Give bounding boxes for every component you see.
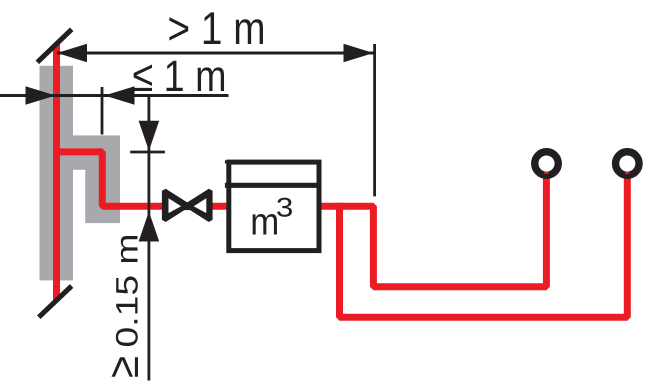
dimension line > 1 m — [57, 52, 374, 55]
valve (bowtie) black body — [164, 191, 210, 220]
valve white inner left triangle — [169, 198, 182, 213]
svg-text:≤ 1 m: ≤ 1 m — [133, 52, 227, 101]
vertical dimension line (&#8805; 0.15 m) — [147, 96, 150, 381]
svg-text:≥: ≥ — [99, 356, 148, 378]
wall break hatch top — [37, 29, 71, 62]
dimension line &#8804; 1 m — [0, 94, 229, 97]
meter box lid divider — [225, 183, 322, 188]
svg-text:> 1 m: > 1 m — [168, 2, 266, 54]
arrowhead right (> 1 m) — [344, 44, 374, 62]
svg-text:3: 3 — [276, 193, 294, 223]
pipe tip sliver in circle 1 — [544, 172, 548, 174]
wall (gray band) — [40, 66, 74, 281]
tap circle 1 — [535, 152, 559, 176]
wall sleeve arm (gray) — [72, 135, 120, 169]
pipe: tee drop + bottom run + riser 2 — [340, 177, 628, 318]
valve black waist patch — [182, 203, 195, 211]
extension tick at branch pipe — [101, 87, 104, 135]
arrowhead pointing down at jog level — [139, 121, 160, 151]
extension tick at meter drop — [373, 44, 376, 196]
valve white inner right triangle — [194, 198, 207, 213]
wall break hatch bottom — [39, 286, 72, 317]
pipe sleeve (gray) — [85, 169, 120, 223]
tap circle 2 — [616, 152, 640, 176]
pipe: main riser in wall — [53, 44, 60, 301]
horizontal tick at jog level — [130, 151, 165, 154]
meter box corner nub — [225, 160, 227, 163]
arrowhead pointing up at service pipe — [139, 212, 160, 242]
meter box — [229, 162, 319, 251]
arrowhead pointing left at branch pipe — [105, 86, 135, 104]
svg-text:0.15 m: 0.15 m — [109, 234, 144, 348]
arrowhead pointing right at wall pipe — [26, 86, 56, 104]
pipe: jog + branch + service line + first loop to riser 1 — [53, 152, 546, 287]
pipe tip sliver in circle 2 — [625, 172, 629, 174]
arrowhead left (> 1 m) — [57, 44, 87, 62]
